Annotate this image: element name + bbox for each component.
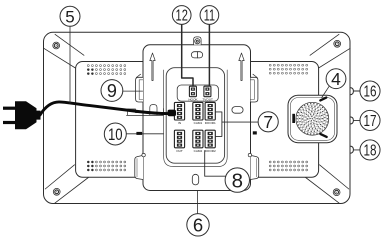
svg-text:11: 11 xyxy=(204,8,215,25)
speaker black mark bottom-right xyxy=(320,134,326,137)
raised back panel xyxy=(76,62,319,178)
svg-text:10: 10 xyxy=(108,125,123,144)
leader line 16 xyxy=(354,90,360,92)
plate side latch right xyxy=(251,77,258,102)
connector CAM2 xyxy=(193,130,203,148)
mounting plate xyxy=(143,45,251,191)
leader line 8 xyxy=(205,151,226,177)
corner screw top-right xyxy=(334,40,341,47)
power cable xyxy=(40,102,175,115)
leader line 6 xyxy=(196,191,198,214)
vent holes top-right xyxy=(269,64,307,74)
svg-text:CAM2: CAM2 xyxy=(194,149,203,153)
side button lower (to 18) xyxy=(350,146,353,153)
connector CAM1 xyxy=(193,102,203,120)
svg-text:HOOK: HOOK xyxy=(188,97,198,101)
vent dark dots bottom-left xyxy=(87,161,93,171)
connector DOOR1 xyxy=(205,102,215,120)
leader line 18 xyxy=(354,149,360,151)
callout 8 xyxy=(225,168,249,192)
svg-text:DOOR2: DOOR2 xyxy=(205,149,216,153)
connector TV OUT xyxy=(204,86,211,97)
callout 16 xyxy=(360,81,380,101)
svg-text:9: 9 xyxy=(107,81,117,101)
vent dark dots top-left xyxy=(87,68,93,74)
plate top screw tab xyxy=(194,37,202,45)
leader line 9 xyxy=(123,90,143,92)
cable end ferrule at IN xyxy=(168,110,177,117)
svg-text:TVOUT: TVOUT xyxy=(202,97,213,101)
plate bottom tab right xyxy=(251,155,259,179)
svg-text:OUT: OUT xyxy=(176,149,183,153)
callout 17 xyxy=(360,110,380,130)
callout 11 xyxy=(200,6,219,25)
leader line 10 xyxy=(126,133,163,135)
vent holes top-left xyxy=(87,65,125,75)
leader line 10 black tip xyxy=(136,132,142,135)
leader line 5 xyxy=(69,27,71,104)
connector recess xyxy=(166,68,224,164)
connector recess outer lip xyxy=(164,70,228,167)
leader line 12 xyxy=(182,25,193,87)
power plug xyxy=(3,101,41,129)
vent holes bottom-left xyxy=(87,161,125,171)
monitor body outline xyxy=(44,32,351,203)
connector OUT xyxy=(174,130,184,148)
callout 9 xyxy=(101,80,123,102)
plate bottom tab left xyxy=(135,155,143,179)
side button middle (to 17) xyxy=(350,117,353,124)
speaker grille xyxy=(296,102,329,135)
svg-text:16: 16 xyxy=(364,84,377,101)
svg-text:DOOR1: DOOR1 xyxy=(205,121,216,125)
corner bevel lines bottom-left xyxy=(45,165,89,204)
leader bracket 7 xyxy=(216,112,259,136)
leader line 4 xyxy=(322,86,329,97)
callout 7 xyxy=(258,112,278,132)
plate side latch left xyxy=(136,77,143,102)
callout 4 xyxy=(326,69,346,89)
side button upper (to 16) xyxy=(350,88,353,95)
keyhole slot xyxy=(191,52,202,58)
cable clamp tabs xyxy=(127,105,167,116)
connector HOOK xyxy=(189,86,196,97)
corner screw bottom-right xyxy=(333,189,340,196)
connector IN xyxy=(174,102,184,120)
callout 5 xyxy=(60,6,80,26)
callout 18 xyxy=(360,140,380,160)
svg-text:5: 5 xyxy=(65,7,74,26)
svg-text:18: 18 xyxy=(364,142,377,159)
svg-text:8: 8 xyxy=(232,169,243,192)
leader line 11 xyxy=(208,25,210,86)
svg-text:IN: IN xyxy=(178,121,181,125)
svg-text:6: 6 xyxy=(193,214,203,235)
oval hole bottom of plate xyxy=(192,174,198,185)
svg-text:17: 17 xyxy=(364,113,377,130)
connector DOOR2 xyxy=(205,130,215,148)
plate screw xyxy=(195,39,200,44)
svg-text:7: 7 xyxy=(263,112,273,132)
oval hole right of recess xyxy=(232,107,243,114)
corner bevel lines top-right xyxy=(310,34,350,71)
corner bevel lines bottom-right xyxy=(305,165,349,204)
svg-text:12: 12 xyxy=(176,8,188,25)
up arrow left xyxy=(150,53,155,81)
speaker black mark left xyxy=(292,114,295,123)
HOOK/TVOUT sub-recess xyxy=(177,85,218,101)
corner screw bottom-left xyxy=(53,188,60,195)
callout 6 xyxy=(187,214,209,236)
callout 10 xyxy=(104,123,126,145)
speaker black mark top-right xyxy=(320,98,326,101)
callout 12 xyxy=(172,6,191,25)
svg-text:4: 4 xyxy=(331,69,341,89)
speaker housing xyxy=(288,95,337,143)
up arrow right xyxy=(239,53,244,81)
corner bevel lines top-left xyxy=(44,34,84,71)
vent holes bottom-right xyxy=(269,161,307,171)
corner screw top-left xyxy=(53,42,60,49)
svg-text:CAM1: CAM1 xyxy=(194,121,203,125)
leader line 17 xyxy=(354,119,360,121)
black hook mark right of plate xyxy=(253,131,257,134)
